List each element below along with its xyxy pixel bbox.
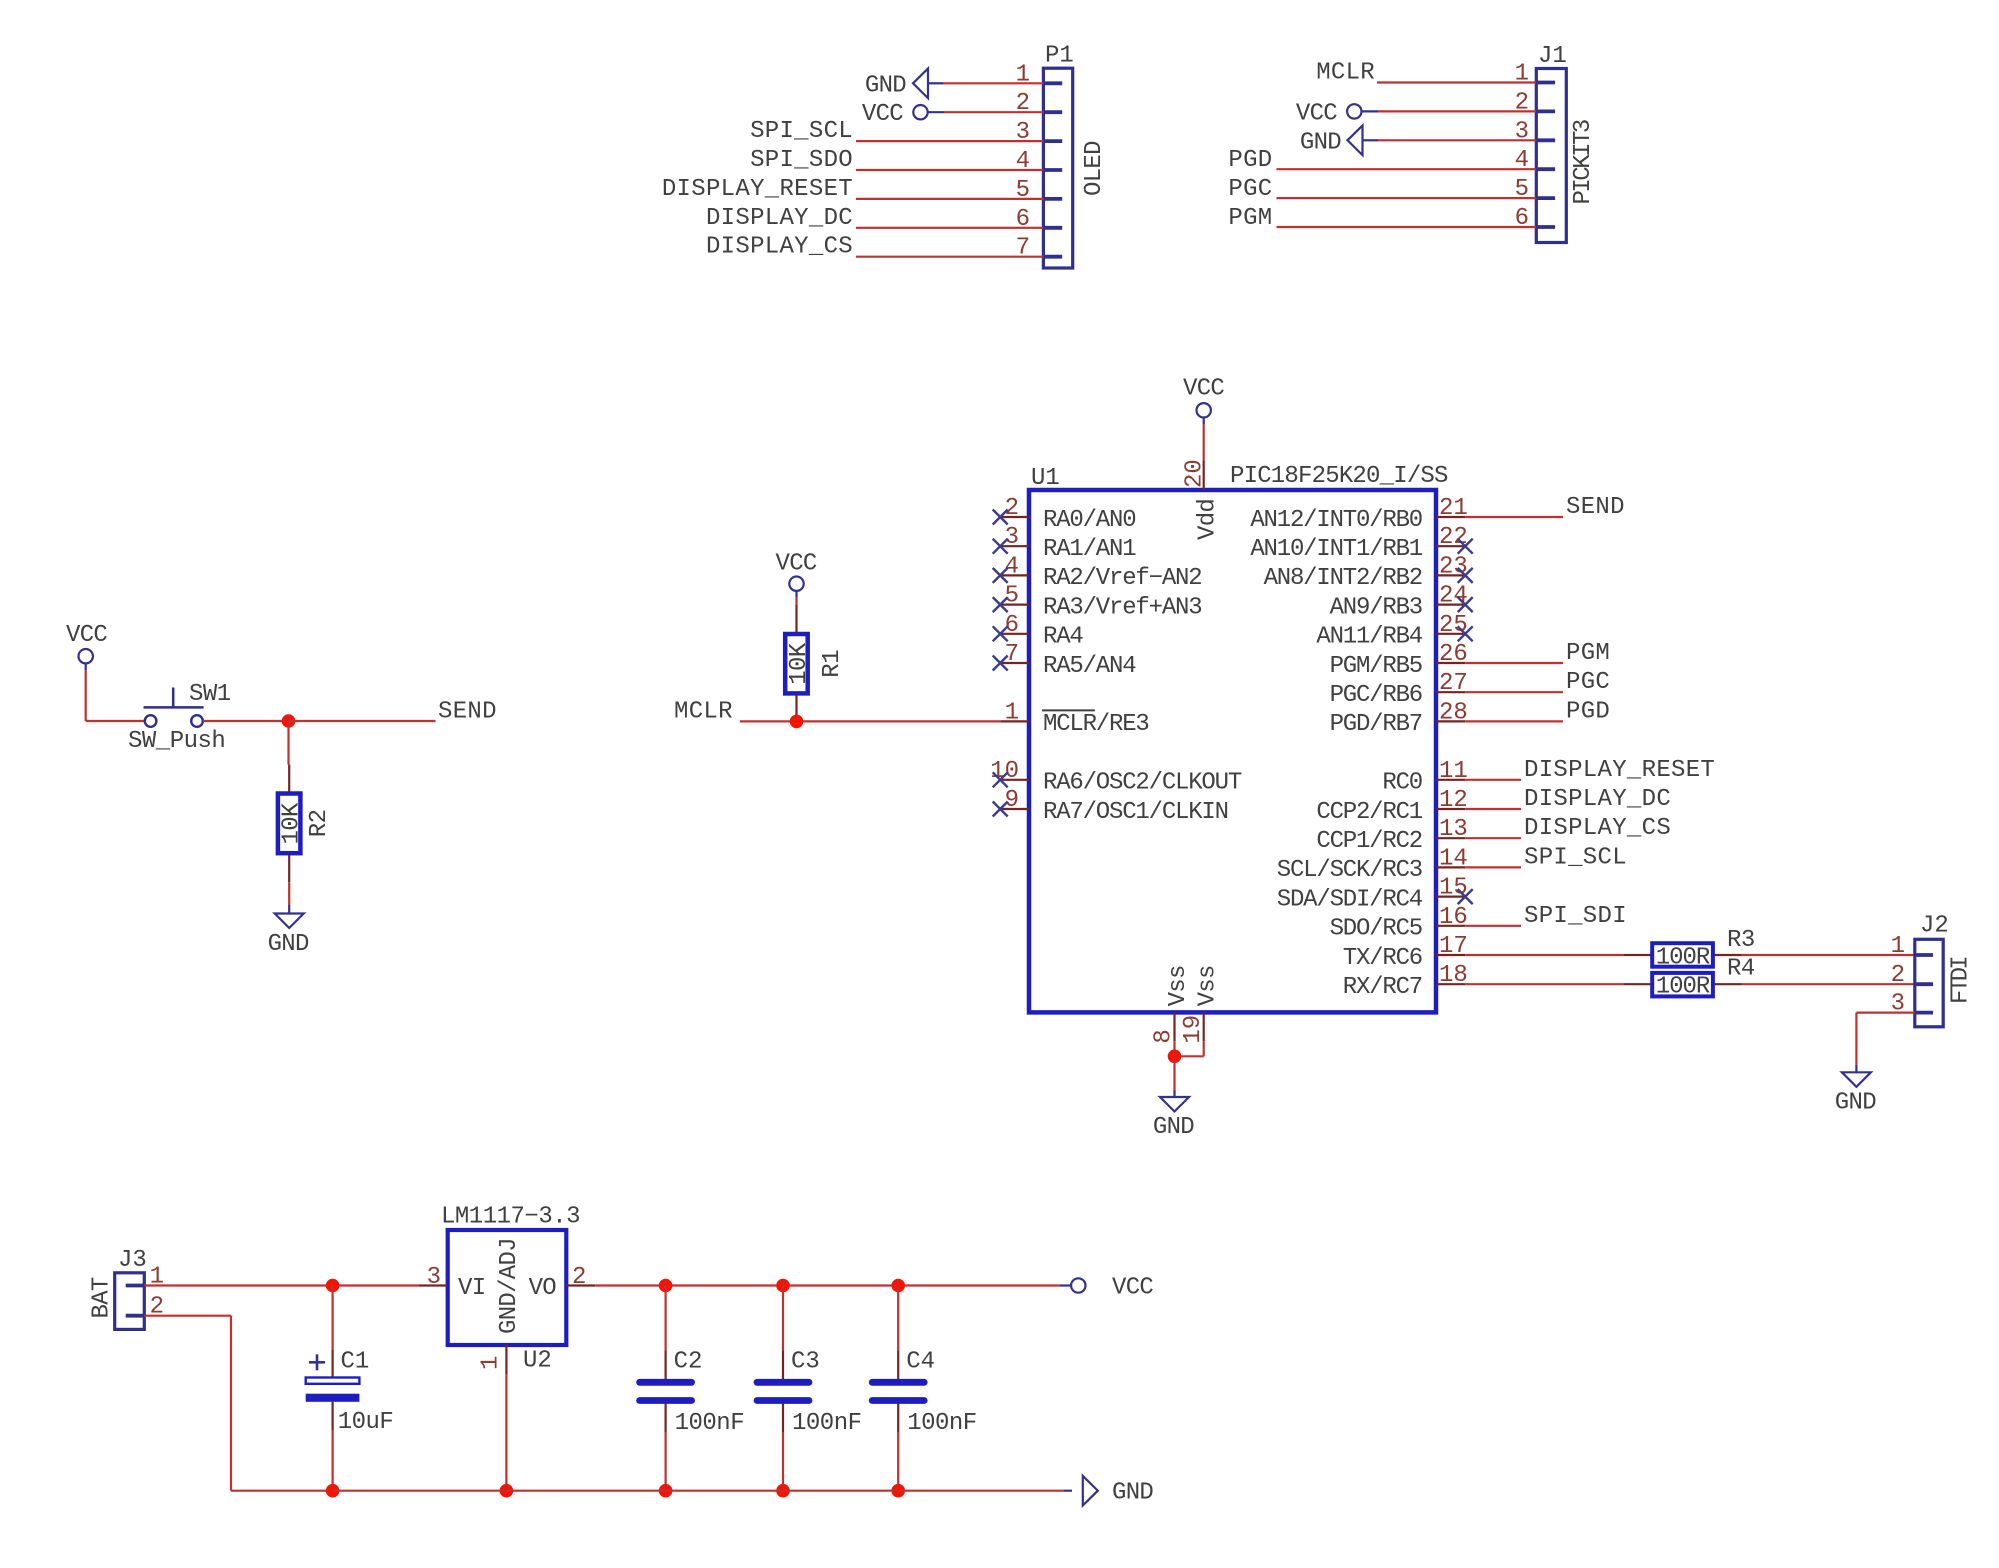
svg-text:SDO/RC5: SDO/RC5 [1330, 916, 1422, 943]
resistor R1 reference label [819, 650, 846, 678]
svg-text:P1: P1 [1045, 43, 1074, 70]
wire C2 top [664, 1286, 666, 1351]
wire P1 pin 4 net SPI_SDO [856, 169, 1043, 171]
svg-text:14: 14 [1439, 845, 1468, 872]
svg-text:18: 18 [1439, 962, 1468, 989]
junction C3 top [776, 1279, 790, 1293]
wire U1 pin 17 to R3 [1465, 954, 1623, 956]
svg-text:SCL/SCK/RC3: SCL/SCK/RC3 [1277, 857, 1422, 884]
wire U1 pin 21 net SEND [1465, 516, 1563, 518]
IC U1 reference label U1 [1031, 465, 1060, 492]
label VCC at SW1 [66, 622, 107, 649]
wire U1 pin 26 net PGM [1465, 662, 1563, 664]
wire U2 pin 1 to ground rail [505, 1374, 507, 1491]
net label PGD at U1 pin 28 [1566, 698, 1610, 725]
svg-text:AN12/INT0/RB0: AN12/INT0/RB0 [1250, 507, 1422, 534]
svg-text:21: 21 [1439, 495, 1468, 522]
U1 pin 12 CCP2/RC1 [1316, 787, 1467, 826]
U1 pin 17 TX/RC6 [1343, 933, 1468, 972]
U1 pin 9 RA7/OSC1/CLKIN [993, 787, 1228, 826]
wire VCC to R1 [795, 597, 797, 605]
wire J1 pin 3 to GND [1378, 139, 1536, 141]
svg-text:PGD/RB7: PGD/RB7 [1330, 711, 1422, 738]
resistor R3 reference label [1727, 927, 1755, 954]
svg-text:Vss: Vss [1165, 965, 1192, 1006]
svg-text:J3: J3 [118, 1247, 147, 1274]
svg-text:R3: R3 [1727, 927, 1755, 954]
capacitor C1 [306, 1350, 360, 1431]
wire U1 pin 18 to R4 [1465, 983, 1623, 985]
svg-text:U1: U1 [1031, 465, 1060, 492]
U1 pin 16 SDO/RC5 [1330, 904, 1468, 943]
svg-text:DISPLAY_DC: DISPLAY_DC [1524, 786, 1671, 813]
svg-text:3: 3 [1005, 524, 1019, 551]
U1 pin 15 SDA/SDI/RC4 [1277, 875, 1473, 914]
svg-text:VCC: VCC [776, 550, 817, 577]
U2 pin 3 VI [419, 1264, 485, 1302]
svg-text:10K: 10K [279, 802, 306, 844]
U1 pin 23 AN8/INT2/RB2 [1264, 553, 1473, 592]
svg-text:1: 1 [478, 1356, 505, 1370]
svg-text:SEND: SEND [438, 699, 497, 726]
svg-text:10K: 10K [786, 642, 813, 684]
svg-text:Vdd: Vdd [1194, 499, 1221, 540]
net label PGD at J1 pin 4 [1228, 147, 1272, 174]
net label DISPLAY_DC at U1 pin 12 [1524, 786, 1671, 813]
capacitor C1 value 10uF [338, 1409, 394, 1436]
svg-text:16: 16 [1439, 904, 1468, 931]
svg-text:AN9/RB3: AN9/RB3 [1330, 594, 1422, 621]
VCC power symbol above U1 [1197, 403, 1211, 424]
svg-text:10: 10 [990, 758, 1019, 785]
svg-text:AN8/INT2/RB2: AN8/INT2/RB2 [1264, 565, 1422, 592]
svg-text:5: 5 [1005, 583, 1019, 610]
resistor R4 [1623, 973, 1742, 1001]
svg-text:VCC: VCC [1296, 100, 1337, 127]
svg-text:C1: C1 [341, 1349, 370, 1376]
U1 pin 28 PGD/RB7 [1330, 699, 1468, 738]
connector J2 body [1915, 939, 1943, 1027]
resistor R2 reference label [306, 809, 333, 837]
capacitor C4 [872, 1350, 924, 1432]
svg-text:SEND: SEND [1566, 494, 1625, 521]
connector J1 pin number 6 [1515, 205, 1529, 232]
svg-text:OLED: OLED [1081, 141, 1108, 196]
wire U1 pin 14 net SPI_SCL [1465, 866, 1521, 868]
wire J1 pin 4 net PGD [1277, 168, 1537, 170]
wire U1 pin 28 net PGD [1465, 720, 1563, 722]
svg-text:PGC/RB6: PGC/RB6 [1330, 682, 1422, 709]
U1 pin 21 AN12/INT0/RB0 [1250, 495, 1467, 534]
junction U2 pin1 bottom [500, 1484, 514, 1498]
connector P1 pin number 6 [1016, 206, 1030, 233]
svg-text:PGM: PGM [1228, 205, 1272, 232]
junction C4 top [891, 1279, 905, 1293]
connector J3 value BAT [89, 1277, 116, 1318]
wire C4 bottom [897, 1432, 899, 1490]
capacitor C2 reference label [674, 1349, 703, 1376]
wire U1 pin 27 net PGC [1465, 691, 1563, 693]
junction SEND node [282, 714, 296, 728]
svg-text:4: 4 [1005, 553, 1019, 580]
svg-text:GND: GND [1153, 1114, 1194, 1141]
connector J3 pin number 1 [150, 1264, 164, 1291]
svg-text:CCP1/RC2: CCP1/RC2 [1316, 828, 1422, 855]
wire J3 pin 2 down to ground rail [144, 1316, 332, 1491]
connector J1 pin number 5 [1515, 176, 1529, 203]
U1 pin 13 CCP1/RC2 [1316, 816, 1467, 855]
svg-text:2: 2 [1891, 962, 1905, 989]
connector P1 body [1043, 68, 1072, 268]
connector J1 value PICKIT3 [1570, 120, 1597, 204]
resistor R4 reference label [1727, 956, 1755, 983]
label GND below J2 [1835, 1089, 1876, 1116]
wire C3 top [782, 1286, 784, 1351]
svg-text:17: 17 [1439, 933, 1468, 960]
connector J3 pin number 2 [150, 1294, 164, 1321]
capacitor C3 reference label [791, 1349, 820, 1376]
svg-text:LM1117−3.3: LM1117−3.3 [441, 1204, 580, 1231]
net label SPI_SCL at U1 pin 14 [1524, 844, 1627, 871]
svg-text:100R: 100R [1656, 945, 1710, 972]
svg-text:DISPLAY_RESET: DISPLAY_RESET [1524, 757, 1715, 784]
U1 pin 7 RA5/AN4 [993, 641, 1137, 680]
connector J2 reference label J2 [1920, 913, 1949, 940]
capacitor C3 value 100nF [792, 1410, 862, 1437]
net label DISPLAY_CS at U1 pin 13 [1524, 815, 1671, 842]
net label SPI_SDO at P1 pin 4 [750, 147, 853, 174]
wire junction to SEND label [289, 720, 436, 722]
svg-text:VCC: VCC [1112, 1275, 1153, 1302]
wire C2 bottom [664, 1432, 666, 1490]
switch SW1 [144, 688, 204, 727]
junction C1 bottom [326, 1484, 340, 1498]
connector J1 reference label J1 [1538, 43, 1567, 70]
svg-text:DISPLAY_CS: DISPLAY_CS [706, 234, 853, 261]
svg-text:SDA/SDI/RC4: SDA/SDI/RC4 [1277, 886, 1423, 913]
svg-text:GND: GND [268, 931, 309, 958]
svg-text:RC0: RC0 [1382, 770, 1422, 797]
svg-text:26: 26 [1439, 641, 1468, 668]
U1 pin 8 Vss stub [1151, 965, 1193, 1043]
svg-text:GND: GND [865, 72, 906, 99]
connector J1 body [1536, 69, 1566, 243]
svg-text:AN10/INT1/RB1: AN10/INT1/RB1 [1250, 536, 1422, 563]
U1 pin 4 RA2/Vref−AN2 [993, 553, 1202, 592]
wire J2 pin 3 to GND [1856, 1013, 1914, 1073]
label VCC output [1112, 1275, 1153, 1302]
U1 pin 25 AN11/RB4 [1316, 612, 1472, 651]
ground symbol below U1 [1160, 1097, 1189, 1112]
label GND rail [1112, 1480, 1153, 1507]
svg-text:C3: C3 [791, 1349, 820, 1376]
svg-text:RA6/OSC2/CLKOUT: RA6/OSC2/CLKOUT [1043, 770, 1242, 797]
svg-text:GND: GND [1112, 1480, 1153, 1507]
wire P1 pin 3 net SPI_SCL [856, 140, 1043, 142]
connector P1 pin number 2 [1016, 90, 1030, 117]
svg-text:AN11/RB4: AN11/RB4 [1316, 624, 1422, 651]
svg-text:PGC: PGC [1566, 669, 1610, 696]
svg-text:28: 28 [1439, 699, 1468, 726]
net label DISPLAY_RESET at U1 pin 11 [1524, 757, 1715, 784]
label GND below U1 [1153, 1114, 1194, 1141]
VCC power symbol at R1 [789, 577, 803, 598]
wire R2 to GND [288, 882, 290, 913]
svg-text:PGM: PGM [1566, 640, 1610, 667]
connector J2 pin number 2 [1891, 962, 1905, 989]
svg-text:RA2/Vref−AN2: RA2/Vref−AN2 [1043, 565, 1201, 592]
svg-text:C4: C4 [906, 1349, 935, 1376]
connector J2 pin number 3 [1891, 991, 1905, 1018]
VCC power symbol at J1 pin 2 [1347, 104, 1378, 118]
svg-text:FTDI: FTDI [1948, 957, 1975, 1004]
net label MCLR at J1 pin 1 [1316, 60, 1375, 87]
net label DISPLAY_RESET at P1 pin 5 [662, 176, 853, 203]
U1 pin 1 MCLR/RE3 [1000, 699, 1148, 738]
svg-text:RA1/AN1: RA1/AN1 [1043, 536, 1136, 563]
svg-text:100R: 100R [1656, 974, 1710, 1001]
svg-text:VO: VO [529, 1275, 557, 1302]
capacitor C2 [640, 1350, 692, 1432]
svg-text:R1: R1 [819, 650, 846, 678]
svg-text:U2: U2 [523, 1348, 552, 1375]
wire U1 pin 12 net DISPLAY_DC [1465, 808, 1521, 810]
net label SPI_SDI at U1 pin 16 [1524, 903, 1627, 930]
svg-text:3: 3 [427, 1264, 441, 1291]
svg-text:RA3/Vref+AN3: RA3/Vref+AN3 [1043, 594, 1201, 621]
label VCC at P1 pin 2 [862, 101, 903, 128]
connector P1 pin number 7 [1016, 235, 1030, 262]
label GND at J1 pin 3 [1300, 129, 1341, 156]
wire C1 top [332, 1286, 334, 1351]
wire P1 pin 1 to GND [944, 82, 1044, 84]
net label PGC at U1 pin 27 [1566, 669, 1610, 696]
wire C4 top [897, 1286, 899, 1351]
wire junction down to R2 [287, 721, 289, 765]
net label MCLR at R1 [674, 698, 733, 725]
svg-text:100nF: 100nF [675, 1410, 745, 1437]
wire VCC to U1 pin 20 [1203, 424, 1205, 461]
wire J1 pin 1 net MCLR [1377, 81, 1536, 83]
ground symbol at J1 pin 3 [1348, 126, 1379, 156]
wire C1 bottom [332, 1431, 334, 1491]
ground symbol below R2 [275, 914, 304, 929]
net label PGC at J1 pin 5 [1228, 176, 1272, 203]
svg-text:DISPLAY_RESET: DISPLAY_RESET [662, 176, 853, 203]
U1 pin 24 AN9/RB3 [1330, 583, 1473, 622]
connector J3 reference label J3 [118, 1247, 147, 1274]
IC U1 value PIC18F25K20_I/SS [1230, 463, 1448, 490]
label GND at P1 pin 1 [865, 72, 906, 99]
net label PGM at U1 pin 26 [1566, 640, 1610, 667]
svg-text:100nF: 100nF [907, 1410, 977, 1437]
svg-text:J1: J1 [1538, 43, 1567, 70]
resistor R1 [785, 605, 813, 722]
svg-text:SW_Push: SW_Push [128, 728, 225, 755]
voltage regulator U2 body [448, 1230, 567, 1345]
connector J1 pin number 1 [1515, 61, 1529, 88]
svg-text:BAT: BAT [89, 1277, 116, 1318]
ground symbol below J2 [1842, 1072, 1871, 1087]
wire P1 pin 5 net DISPLAY_RESET [856, 198, 1043, 200]
svg-text:1: 1 [1005, 699, 1019, 726]
svg-text:RA4: RA4 [1043, 624, 1083, 651]
U1 pin 11 RC0 [1382, 758, 1467, 797]
svg-text:PGD: PGD [1566, 698, 1610, 725]
svg-text:PGC: PGC [1228, 176, 1272, 203]
connector J1 pin number 2 [1515, 89, 1529, 116]
svg-text:MCLR: MCLR [674, 698, 733, 725]
wire C3 bottom [782, 1432, 784, 1490]
net label SEND at SW1 [438, 699, 497, 726]
junction C2 bottom [659, 1484, 673, 1498]
svg-text:SPI_SDI: SPI_SDI [1524, 903, 1627, 930]
voltage regulator U2 value LM1117-3.3 [441, 1204, 580, 1231]
net label DISPLAY_DC at P1 pin 6 [706, 205, 853, 232]
wire P1 pin 2 to VCC [944, 111, 1043, 113]
label VCC at R1 [776, 550, 817, 577]
connector P1 pin number 3 [1016, 119, 1030, 146]
wire J3 pin 1 to regulator VI [144, 1284, 419, 1286]
svg-text:J2: J2 [1920, 913, 1949, 940]
svg-text:SPI_SDO: SPI_SDO [750, 147, 853, 174]
svg-text:DISPLAY_CS: DISPLAY_CS [1524, 815, 1671, 842]
label VCC above U1 [1183, 376, 1224, 403]
svg-text:RA7/OSC1/CLKIN: RA7/OSC1/CLKIN [1043, 799, 1228, 826]
U1 pin 26 PGM/RB5 [1330, 641, 1468, 680]
voltage regulator U2 reference label U2 [523, 1348, 552, 1375]
junction MCLR node [790, 715, 804, 729]
svg-text:GND: GND [1300, 129, 1341, 156]
junction below U1 Vss [1168, 1050, 1182, 1064]
svg-text:MCLR/RE3: MCLR/RE3 [1043, 711, 1149, 738]
resistor R2 [278, 765, 306, 883]
svg-text:13: 13 [1439, 816, 1468, 843]
svg-text:VCC: VCC [862, 101, 903, 128]
svg-text:10uF: 10uF [338, 1409, 394, 1436]
svg-text:PGM/RB5: PGM/RB5 [1330, 653, 1422, 680]
U1 pin 5 RA3/Vref+AN3 [993, 583, 1202, 622]
wire VCC to SW1 [86, 670, 145, 721]
switch SW1 reference label [189, 681, 231, 708]
capacitor C3 [757, 1350, 809, 1432]
wire R3 to J2 pin 1 [1742, 954, 1915, 956]
wire U1 pin 16 net SPI_SDI [1465, 925, 1521, 927]
connector J3 body [115, 1273, 145, 1330]
svg-text:DISPLAY_DC: DISPLAY_DC [706, 205, 853, 232]
U1 pin 22 AN10/INT1/RB1 [1250, 524, 1472, 563]
connector P1 pin number 4 [1016, 148, 1030, 175]
connector J1 pin number 3 [1515, 118, 1529, 145]
svg-text:2: 2 [572, 1264, 586, 1291]
wire junction to GND below U1 [1173, 1056, 1175, 1097]
svg-text:SW1: SW1 [189, 681, 231, 708]
svg-text:7: 7 [1005, 641, 1019, 668]
connector P1 pin number 5 [1016, 177, 1030, 204]
wire J1 pin 2 to VCC [1378, 110, 1536, 112]
svg-text:SPI_SCL: SPI_SCL [1524, 844, 1627, 871]
svg-text:6: 6 [1005, 612, 1019, 639]
wire P1 pin 7 net DISPLAY_CS [856, 256, 1043, 258]
U2 pin 2 VO [529, 1264, 596, 1302]
svg-text:R2: R2 [306, 809, 333, 837]
svg-text:2: 2 [1005, 495, 1019, 522]
net label SEND at U1 pin 21 [1566, 494, 1625, 521]
svg-text:Vss: Vss [1194, 965, 1221, 1006]
wire U1 pin 11 net DISPLAY_RESET [1465, 779, 1521, 781]
svg-text:CCP2/RC1: CCP2/RC1 [1316, 799, 1422, 826]
U1 pin 2 RA0/AN0 [993, 495, 1136, 534]
wire U1 pin 13 net DISPLAY_CS [1465, 837, 1521, 839]
svg-text:RA0/AN0: RA0/AN0 [1043, 507, 1135, 534]
net label DISPLAY_CS at P1 pin 7 [706, 234, 853, 261]
svg-text:RX/RC7: RX/RC7 [1343, 974, 1422, 1001]
net label SPI_SCL at P1 pin 3 [750, 118, 853, 145]
connector P1 reference label P1 [1045, 43, 1074, 70]
svg-text:19: 19 [1180, 1015, 1207, 1044]
wire ground rail [333, 1490, 1072, 1492]
VCC power symbol at SW1 [79, 649, 93, 670]
junction C3 bottom [776, 1484, 790, 1498]
svg-text:SPI_SCL: SPI_SCL [750, 118, 853, 145]
label GND below R2 [268, 931, 309, 958]
svg-text:MCLR: MCLR [1316, 60, 1375, 87]
label VCC at J1 pin 2 [1296, 100, 1337, 127]
wire R4 to J2 pin 2 [1742, 983, 1915, 985]
svg-text:PICKIT3: PICKIT3 [1570, 120, 1597, 204]
wire U1 pin 8 down [1173, 1041, 1175, 1056]
svg-text:TX/RC6: TX/RC6 [1343, 945, 1422, 972]
svg-text:GND/ADJ: GND/ADJ [496, 1238, 523, 1334]
junction C1 top [326, 1279, 340, 1293]
svg-text:11: 11 [1439, 758, 1468, 785]
VCC power symbol at P1 pin 2 [913, 105, 944, 119]
wire SW1 to SEND junction [203, 720, 289, 722]
U1 pin 27 PGC/RB6 [1330, 670, 1468, 709]
ground symbol rail right [1083, 1476, 1098, 1506]
svg-text:GND: GND [1835, 1089, 1876, 1116]
resistor R3 [1623, 943, 1742, 971]
svg-text:1: 1 [1891, 933, 1905, 960]
svg-text:100nF: 100nF [792, 1410, 862, 1437]
svg-text:R4: R4 [1727, 956, 1755, 983]
wire J1 pin 5 net PGC [1277, 197, 1537, 199]
connector J1 pin number 4 [1515, 147, 1529, 174]
svg-text:VCC: VCC [1183, 376, 1224, 403]
U1 pin 14 SCL/SCK/RC3 [1277, 845, 1468, 884]
ground symbol at P1 pin 1 [913, 69, 944, 99]
wire MCLR to U1 pin 1 [740, 720, 1000, 722]
VCC power symbol output [1071, 1278, 1085, 1292]
switch SW1 value SW_Push [128, 728, 225, 755]
net label PGM at J1 pin 6 [1228, 205, 1272, 232]
junction C2 top [659, 1279, 673, 1293]
svg-text:C2: C2 [674, 1349, 703, 1376]
svg-text:9: 9 [1005, 787, 1019, 814]
capacitor C4 reference label [906, 1349, 935, 1376]
capacitor C1 reference label [341, 1349, 370, 1376]
U1 pin 19 Vss stub [1180, 965, 1221, 1043]
wire U1 pin 19 down and left [1175, 1041, 1204, 1056]
IC U1 body [1029, 490, 1436, 1012]
wire P1 pin 6 net DISPLAY_DC [856, 227, 1043, 229]
U1 pin 3 RA1/AN1 [993, 524, 1137, 563]
connector P1 pin number 1 [1016, 61, 1030, 88]
svg-text:VI: VI [458, 1275, 485, 1302]
wire J1 pin 6 net PGM [1277, 226, 1537, 228]
connector J2 value FTDI [1948, 957, 1975, 1004]
U1 pin 20 Vdd stub [1182, 459, 1222, 540]
